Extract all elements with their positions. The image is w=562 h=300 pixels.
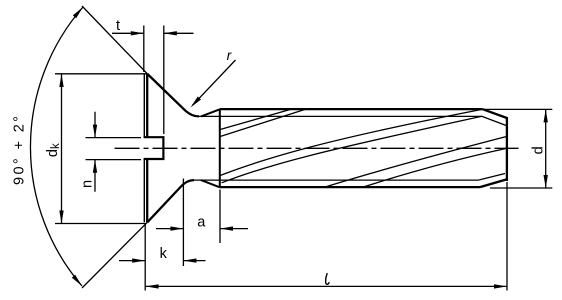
svg-text:t: t [116, 18, 120, 34]
end chamfer top [482, 109, 507, 118]
head cone bottom edge [147, 180, 194, 222]
arc arrowhead top [73, 7, 83, 18]
dimension a line [156, 228, 248, 230]
k arrow right [183, 258, 196, 262]
dimension a extension lines [183, 179, 220, 267]
thread root bottom [193, 179, 478, 181]
flute line A [220, 109, 291, 129]
slot outline [144, 137, 164, 159]
svg-text:k: k [160, 246, 168, 262]
label t [116, 18, 120, 34]
construction line top (cone extended) [82, 6, 148, 74]
angle arc 90deg [30, 7, 83, 286]
root chamfer bend bottom [478, 174, 505, 181]
dimension dk extension lines [55, 74, 148, 224]
thread crest bottom [220, 186, 480, 188]
label 90deg [12, 116, 28, 185]
svg-text:a: a [197, 214, 206, 230]
flute line E [220, 109, 482, 175]
end chamfer bottom [480, 180, 506, 188]
screw head face left line [143, 74, 145, 222]
arc arrowhead bottom [72, 275, 82, 286]
dimension t extension lines [144, 26, 164, 135]
l arrow left [146, 284, 159, 288]
l arrow right [494, 284, 507, 288]
a arrow left [170, 226, 183, 230]
t arrow right [164, 31, 177, 35]
label d [530, 146, 546, 154]
screw head face right line [146, 74, 148, 222]
label k [160, 246, 168, 262]
label a [197, 214, 206, 230]
thread start edge [219, 109, 221, 187]
n arrow bottom [93, 160, 97, 173]
dimension d line [545, 109, 547, 188]
label r [227, 47, 233, 63]
r leader line [193, 60, 236, 105]
t arrow left [131, 31, 144, 35]
n arrow top [93, 125, 97, 138]
r leader arrowhead [191, 97, 201, 108]
dimension dk line [61, 74, 63, 224]
neck rise top [201, 109, 220, 116]
head cone top edge [148, 74, 200, 116]
dimension l extension line right [506, 182, 508, 291]
construction line bottom (cone extended) [82, 222, 147, 288]
d arrow bottom [544, 175, 548, 188]
label l [326, 274, 329, 285]
centerline [115, 147, 519, 149]
dk arrow top [59, 74, 63, 87]
d arrow top [544, 109, 548, 122]
label dk [45, 143, 62, 157]
dk arrow bottom [59, 211, 63, 224]
a arrow right [220, 226, 233, 230]
flute line F [222, 116, 482, 183]
root chamfer bend top [482, 116, 507, 125]
neck rise bottom [201, 180, 220, 187]
label n [80, 180, 96, 188]
dimension k extension line left [144, 224, 146, 291]
flute line H [362, 148, 507, 187]
dimension n extension lines [86, 138, 142, 160]
dimension k line [119, 260, 206, 262]
dimension t line [112, 32, 194, 34]
dimension l line [146, 285, 507, 287]
svg-text:n: n [80, 180, 96, 188]
k arrow left [132, 258, 145, 262]
end face [506, 117, 508, 181]
dimension d extension lines [483, 109, 552, 188]
thread root top [196, 115, 482, 117]
dimension n line [94, 112, 96, 192]
flute line G [324, 137, 506, 188]
svg-text:90° + 2°: 90° + 2° [12, 116, 28, 185]
svg-text:d: d [530, 146, 546, 154]
thread crest top [220, 108, 483, 110]
flute line B [220, 109, 306, 136]
